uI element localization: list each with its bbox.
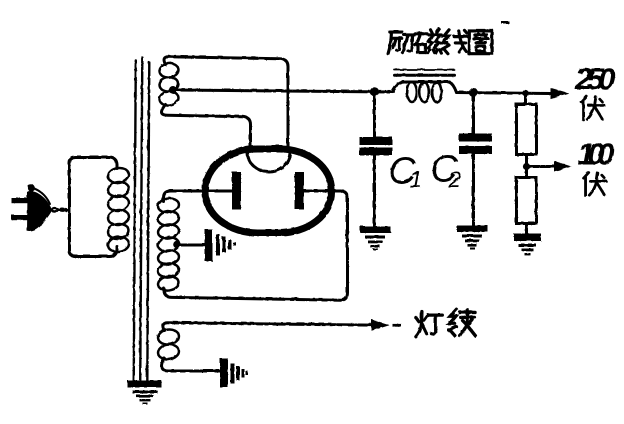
- svg-text:1: 1: [409, 166, 422, 192]
- svg-text:100: 100: [577, 136, 614, 171]
- svg-text:2: 2: [447, 166, 461, 192]
- svg-text:250: 250: [574, 61, 615, 96]
